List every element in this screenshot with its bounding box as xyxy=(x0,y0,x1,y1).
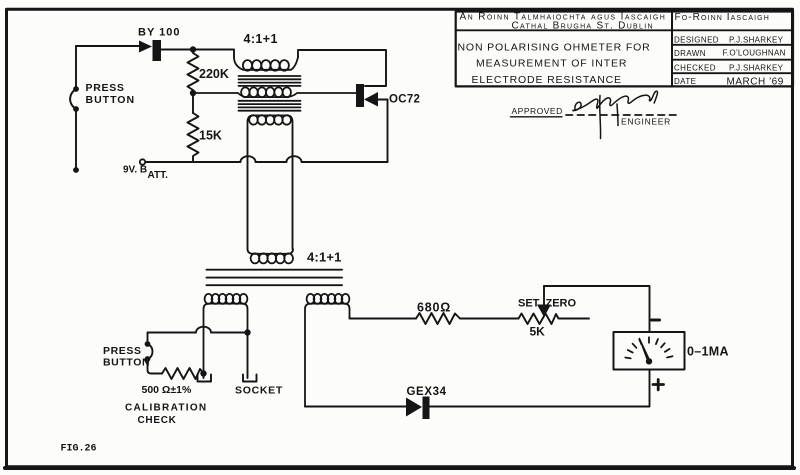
approved dashed signature line xyxy=(566,114,676,116)
svg-text:SOCKET: SOCKET xyxy=(235,385,283,397)
wire: press button PB1 to diode D1 xyxy=(76,45,139,47)
node D (socket top junction) xyxy=(244,329,250,335)
svg-text:5K: 5K xyxy=(530,325,546,339)
transformer T1 winding W2 (middle, base drive) xyxy=(193,87,356,97)
transformer T1 winding W3 (bottom, feedback) xyxy=(248,115,293,128)
transformer T2 winding W4 (primary) xyxy=(248,249,294,263)
transformer T1 core (lower) xyxy=(239,101,301,111)
svg-text:GEX34: GEX34 xyxy=(407,386,447,398)
wire: R4 to potentiometer R5 xyxy=(460,318,519,320)
wire: W3 right lead down to T2 xyxy=(292,128,294,249)
resistor R4 680 ohm xyxy=(416,313,460,324)
transformer T1 winding W1 (top) xyxy=(234,57,298,71)
potentiometer R5 wiper xyxy=(537,286,551,317)
wire: wiper to meter minus xyxy=(544,286,650,332)
wire: W6 left lead to diode D2 xyxy=(305,406,406,408)
meter M1 body xyxy=(614,332,685,370)
wire: W1 to collector of Q1 xyxy=(298,50,386,86)
wire: PB2 bottom to R3 xyxy=(148,359,163,374)
resistor R2 15K xyxy=(188,113,199,162)
node A xyxy=(190,46,196,52)
svg-text:DRAWN: DRAWN xyxy=(674,49,706,58)
svg-text:NON POLARISING OHMETER FOR: NON POLARISING OHMETER FOR xyxy=(458,42,651,54)
label plus terminal xyxy=(653,380,664,390)
transistor Q1 OC72 base bar xyxy=(356,84,364,107)
transformer T1 core (upper) xyxy=(239,76,301,86)
wire: node D to press button PB2 with hop over W5 lead xyxy=(148,327,248,344)
wire: Q1 emitter down to bottom rail xyxy=(378,100,388,163)
svg-text:ENGINEER: ENGINEER xyxy=(621,117,671,127)
label minus terminal xyxy=(652,319,660,322)
svg-text:15K: 15K xyxy=(199,129,222,143)
svg-text:DATE: DATE xyxy=(674,77,696,86)
socket pin 1 xyxy=(198,374,212,382)
resistor R1 220K xyxy=(188,53,199,93)
svg-text:P.J.SHARKEY: P.J.SHARKEY xyxy=(729,36,784,45)
wire: D1 to node A xyxy=(161,49,193,51)
svg-text:APPROVED: APPROVED xyxy=(512,106,563,116)
svg-text:220K: 220K xyxy=(199,67,229,81)
wire: bottom rail of oscillator with crossover hops xyxy=(146,156,388,162)
press button PB2 (lower) xyxy=(145,341,153,362)
meter M1 scale ticks and needle xyxy=(625,337,672,364)
svg-text:SET: SET xyxy=(518,298,540,310)
wire: meter plus down and left to D2 xyxy=(430,370,650,407)
signature scribble xyxy=(573,91,657,138)
wire: node A to transformer T1 primary xyxy=(193,50,234,58)
svg-text:ATT.: ATT. xyxy=(148,170,169,181)
svg-text:4:1+1: 4:1+1 xyxy=(244,32,278,46)
svg-text:CHECKED: CHECKED xyxy=(674,64,716,73)
svg-text:CHECK: CHECK xyxy=(138,415,177,426)
transistor Q1 OC72 emitter arrow xyxy=(364,92,378,107)
svg-text:BUTTON: BUTTON xyxy=(86,94,136,106)
svg-text:ZERO: ZERO xyxy=(546,298,577,310)
node C (socket left junction) xyxy=(200,370,206,376)
wire: W6 right lead to 680 ohm xyxy=(350,318,417,319)
diode D2 GEX34 xyxy=(406,397,430,420)
wire: node D down to socket pin 2 xyxy=(247,333,249,379)
svg-text:Fo-Roinn Iascaigh: Fo-Roinn Iascaigh xyxy=(675,12,770,23)
svg-text:P.J.SHARKEY: P.J.SHARKEY xyxy=(729,64,784,73)
transformer T2 winding W6 (right secondary) xyxy=(305,294,350,407)
svg-text:680Ω: 680Ω xyxy=(417,301,451,315)
wire: W3 left lead down to T2 xyxy=(247,128,249,249)
svg-text:9V. B: 9V. B xyxy=(123,165,147,176)
svg-text:MEASUREMENT OF INTER: MEASUREMENT OF INTER xyxy=(476,58,627,70)
svg-text:BY 100: BY 100 xyxy=(138,27,181,39)
wire: node B down to R2 xyxy=(192,93,194,113)
battery terminal 9V xyxy=(140,159,145,164)
svg-text:ELECTRODE RESISTANCE: ELECTRODE RESISTANCE xyxy=(472,74,622,86)
svg-text:500 Ω±1%: 500 Ω±1% xyxy=(142,384,192,396)
node B xyxy=(190,90,196,96)
svg-text:F.O’LOUGHNAN: F.O’LOUGHNAN xyxy=(723,49,786,58)
potentiometer R5 5K track xyxy=(519,314,590,325)
transformer T2 core xyxy=(207,270,343,286)
svg-text:FIG.26: FIG.26 xyxy=(61,444,97,455)
svg-text:BUTTON: BUTTON xyxy=(103,357,150,369)
svg-text:DESIGNED: DESIGNED xyxy=(674,36,719,45)
svg-text:Cathal Brugha St. Dublin: Cathal Brugha St. Dublin xyxy=(512,20,654,31)
svg-text:4:1+1: 4:1+1 xyxy=(307,250,342,265)
svg-text:PRESS: PRESS xyxy=(103,345,142,357)
title block box xyxy=(456,12,793,87)
svg-text:MARCH ’69: MARCH ’69 xyxy=(727,76,784,87)
resistor R3 500 ohm calibration xyxy=(162,368,204,379)
transformer T2 winding W5 (left secondary) xyxy=(204,294,248,374)
diode D1 BY 100 xyxy=(139,40,161,61)
press button PB1 (upper) xyxy=(70,46,79,173)
svg-text:OC72: OC72 xyxy=(389,94,420,106)
svg-text:PRESS: PRESS xyxy=(86,82,125,94)
svg-text:0–1MA: 0–1MA xyxy=(687,345,729,359)
svg-text:CALIBRATION: CALIBRATION xyxy=(125,403,207,414)
socket pin 2 xyxy=(243,375,257,382)
